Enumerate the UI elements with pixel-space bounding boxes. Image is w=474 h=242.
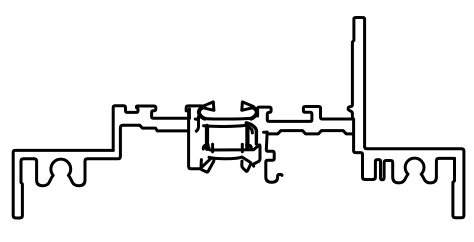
channel floor end stub (195, 118, 197, 121)
lower strip upper-right gamma piece (247, 145, 252, 149)
right block outer top line, right wall and tail (365, 147, 464, 218)
lower strip upper-left gamma piece (203, 145, 208, 149)
upper strip lower-right horn inner edge (245, 126, 252, 133)
upper strip left S-wing (199, 108, 205, 119)
right claw T (hook1) and slot floors to tall bar (258, 107, 353, 122)
lower thermal strip bottom edge (sag) (209, 157, 251, 171)
left upper T-slot head with teeth (113, 106, 189, 151)
central stem left wall with bottom hook (189, 111, 214, 173)
left block outer wall and tail (13, 150, 113, 218)
lower strip upper-left vertical piece (211, 144, 214, 152)
central stem right wall (196, 117, 198, 132)
thermal box right wall (245, 126, 249, 149)
right block inner contour: wall from floor, hook, dips and omega (354, 119, 455, 183)
upper thermal strip bottom edge (sag) (204, 125, 247, 127)
channel floor rise to central T bar (188, 109, 191, 118)
central T bar (186, 106, 202, 111)
lower thermal strip top edge (209, 145, 260, 166)
right lower claw zigzag and bracket (266, 134, 282, 182)
right arm bottom tick (264, 131, 268, 134)
upper thermal strip top edge (sag) (205, 117, 251, 121)
lower strip upper-right vertical piece (241, 144, 244, 152)
tall bar: left edge with bump, top, right edge (348, 18, 364, 147)
thermal box left wall (205, 126, 209, 149)
left block inner contour with dips and omega screw port (34, 125, 187, 186)
upper strip right S-wing (251, 108, 257, 119)
upper strip lower-right horn with finger (246, 123, 256, 144)
aluminium funnel left (dovetail) (202, 102, 214, 110)
right arm bottom wall with bumps (267, 131, 354, 134)
aluminium funnel right (dovetail) (242, 102, 254, 110)
